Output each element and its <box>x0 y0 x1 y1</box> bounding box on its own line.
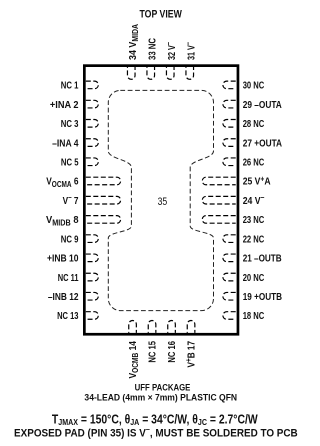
pin 6 label VOCMA 6 <box>46 176 78 189</box>
note exposed pad <box>14 425 298 440</box>
svg-text:27 +OUTA: 27 +OUTA <box>243 137 283 148</box>
pin 19 (+OUTB) lead <box>223 292 236 300</box>
pin 15 label NC 15 <box>146 341 157 363</box>
svg-text:21 –OUTB: 21 –OUTB <box>243 253 282 264</box>
pin 33 (NC) lead <box>147 67 155 79</box>
pin 14 (VOCMB) lead <box>129 321 137 333</box>
svg-text:35: 35 <box>158 196 168 208</box>
pad number 35 <box>158 196 168 208</box>
pin 25 label 25 V+A <box>243 174 271 188</box>
pin 34 label 34 VMIDA <box>127 23 140 60</box>
pin 7 label V- 7 <box>63 192 79 206</box>
pin 17 label V+B 17 <box>183 341 196 367</box>
pin 2 label +INA 2 <box>50 99 79 111</box>
pin 27 (+OUTA) lead <box>223 139 236 147</box>
pin 23 (NC) lead <box>202 216 235 224</box>
pin 14 label VOCMB 14 <box>126 340 140 378</box>
pin 18 (NC) lead <box>223 312 236 320</box>
pin 7 (V-) lead <box>86 196 121 204</box>
pin 30 label 30 NC <box>243 80 265 91</box>
svg-text:26 NC: 26 NC <box>243 156 265 167</box>
pin 4 label -INA 4 <box>52 138 79 150</box>
pin 28 label 28 NC <box>243 118 265 129</box>
pin 26 label 26 NC <box>243 156 265 167</box>
title TOP VIEW <box>140 9 183 21</box>
pin 11 (NC) lead <box>86 273 99 281</box>
pin 3 (NC) lead <box>86 120 99 128</box>
pin 6 (VOCMA) lead <box>86 177 121 185</box>
svg-text:–INA 4: –INA 4 <box>52 138 79 150</box>
pin 12 label -INB 12 <box>48 291 79 302</box>
svg-text:23 NC: 23 NC <box>243 214 265 225</box>
svg-text:NC 13: NC 13 <box>57 310 78 321</box>
svg-text:NC 5: NC 5 <box>61 156 79 167</box>
svg-text:+INB 10: +INB 10 <box>47 253 78 265</box>
pin 16 (NC) lead <box>168 321 176 333</box>
pin 24 label 24 V- <box>243 193 265 208</box>
svg-text:UFF PACKAGE: UFF PACKAGE <box>135 382 191 393</box>
pin 31 label 31 V- <box>185 42 197 60</box>
pin 15 (NC) lead <box>148 321 156 333</box>
svg-text:NC 9: NC 9 <box>61 233 79 244</box>
pin 11 label NC 11 <box>58 272 79 283</box>
pin 20 label 20 NC <box>243 272 265 283</box>
pin 19 label 19 +OUTB <box>243 291 283 302</box>
pin 10 (+INB) lead <box>86 254 99 262</box>
svg-text:NC 15: NC 15 <box>146 341 157 363</box>
svg-text:TJMAX = 150°C, θJA = 34°C/W, θ: TJMAX = 150°C, θJA = 34°C/W, θJC = 2.7°C… <box>52 413 258 426</box>
svg-text:33 NC: 33 NC <box>146 38 157 60</box>
pin 1 (NC) lead <box>86 81 99 89</box>
pin 8 (VMIDB) lead <box>86 216 121 224</box>
pin 29 label 29 -OUTA <box>243 99 282 110</box>
svg-text:–INB 12: –INB 12 <box>48 291 79 302</box>
svg-text:+INA 2: +INA 2 <box>50 99 79 111</box>
svg-text:EXPOSED PAD (PIN 35) IS V–, MU: EXPOSED PAD (PIN 35) IS V–, MUST BE SOLD… <box>14 425 298 440</box>
package description 34-LEAD QFN <box>84 392 237 402</box>
pin 32 label 32 V- <box>165 42 177 60</box>
pin 27 label 27 +OUTA <box>243 137 283 148</box>
pin 24 (V-) lead <box>202 196 235 204</box>
pin 25 (V+A) lead <box>202 177 235 185</box>
note thermal data TJMAX <box>52 413 258 426</box>
svg-text:TOP VIEW: TOP VIEW <box>140 9 183 21</box>
pin 23 label 23 NC <box>243 214 265 225</box>
svg-text:20 NC: 20 NC <box>243 272 265 283</box>
svg-text:30 NC: 30 NC <box>243 80 265 91</box>
pin 28 (NC) lead <box>223 120 236 128</box>
svg-text:NC 16: NC 16 <box>166 341 177 363</box>
pin 34 (VMIDA) lead <box>127 67 135 79</box>
pin 29 (-OUTA) lead <box>223 100 236 108</box>
svg-text:18 NC: 18 NC <box>243 310 265 321</box>
svg-text:22 NC: 22 NC <box>243 233 265 244</box>
svg-text:29 –OUTA: 29 –OUTA <box>243 99 282 110</box>
pin 33 label 33 NC <box>146 38 157 60</box>
svg-text:NC 11: NC 11 <box>58 272 79 283</box>
svg-text:NC 1: NC 1 <box>61 80 79 91</box>
pin 9 label NC 9 <box>61 233 79 244</box>
package name UFF PACKAGE <box>135 382 191 393</box>
pin 18 label 18 NC <box>243 310 265 321</box>
pin 21 label 21 -OUTB <box>243 253 282 264</box>
pin 4 (-INA) lead <box>86 139 99 147</box>
pin 26 (NC) lead <box>223 158 236 166</box>
svg-text:V+B 17: V+B 17 <box>183 341 196 367</box>
svg-text:19 +OUTB: 19 +OUTB <box>243 291 283 302</box>
pin 32 (V-) lead <box>166 67 174 79</box>
pin 31 (V-) lead <box>186 67 194 79</box>
pin 3 label NC 3 <box>61 118 79 129</box>
pin 20 (NC) lead <box>223 273 236 281</box>
IC package outline U1 (34-lead QFN) <box>84 66 238 335</box>
pin 30 (NC) lead <box>223 81 236 89</box>
pin 5 (NC) lead <box>86 158 98 166</box>
pin 13 (NC) lead <box>86 312 99 320</box>
pin 2 (+INA) lead <box>86 100 98 108</box>
pin 12 (-INB) lead <box>86 292 99 300</box>
pin 17 (V+B) lead <box>187 321 195 333</box>
svg-text:25 V+A: 25 V+A <box>243 174 271 188</box>
pin 5 label NC 5 <box>61 156 79 167</box>
pin 9 (NC) lead <box>86 235 98 243</box>
pin 13 label NC 13 <box>57 310 78 321</box>
pin 22 label 22 NC <box>243 233 265 244</box>
pin 16 label NC 16 <box>166 341 177 363</box>
svg-text:NC 3: NC 3 <box>61 118 79 129</box>
pin 21 (-OUTB) lead <box>223 254 236 262</box>
exposed pad (pin 35) outline <box>108 90 213 310</box>
pin 1 label NC 1 <box>61 80 79 91</box>
pin 8 label VMIDB 8 <box>46 215 79 228</box>
svg-text:28 NC: 28 NC <box>243 118 265 129</box>
svg-text:34-LEAD (4mm × 7mm) PLASTIC QF: 34-LEAD (4mm × 7mm) PLASTIC QFN <box>84 392 237 402</box>
pin 10 label +INB 10 <box>47 253 78 265</box>
pin 22 (NC) lead <box>223 235 236 243</box>
